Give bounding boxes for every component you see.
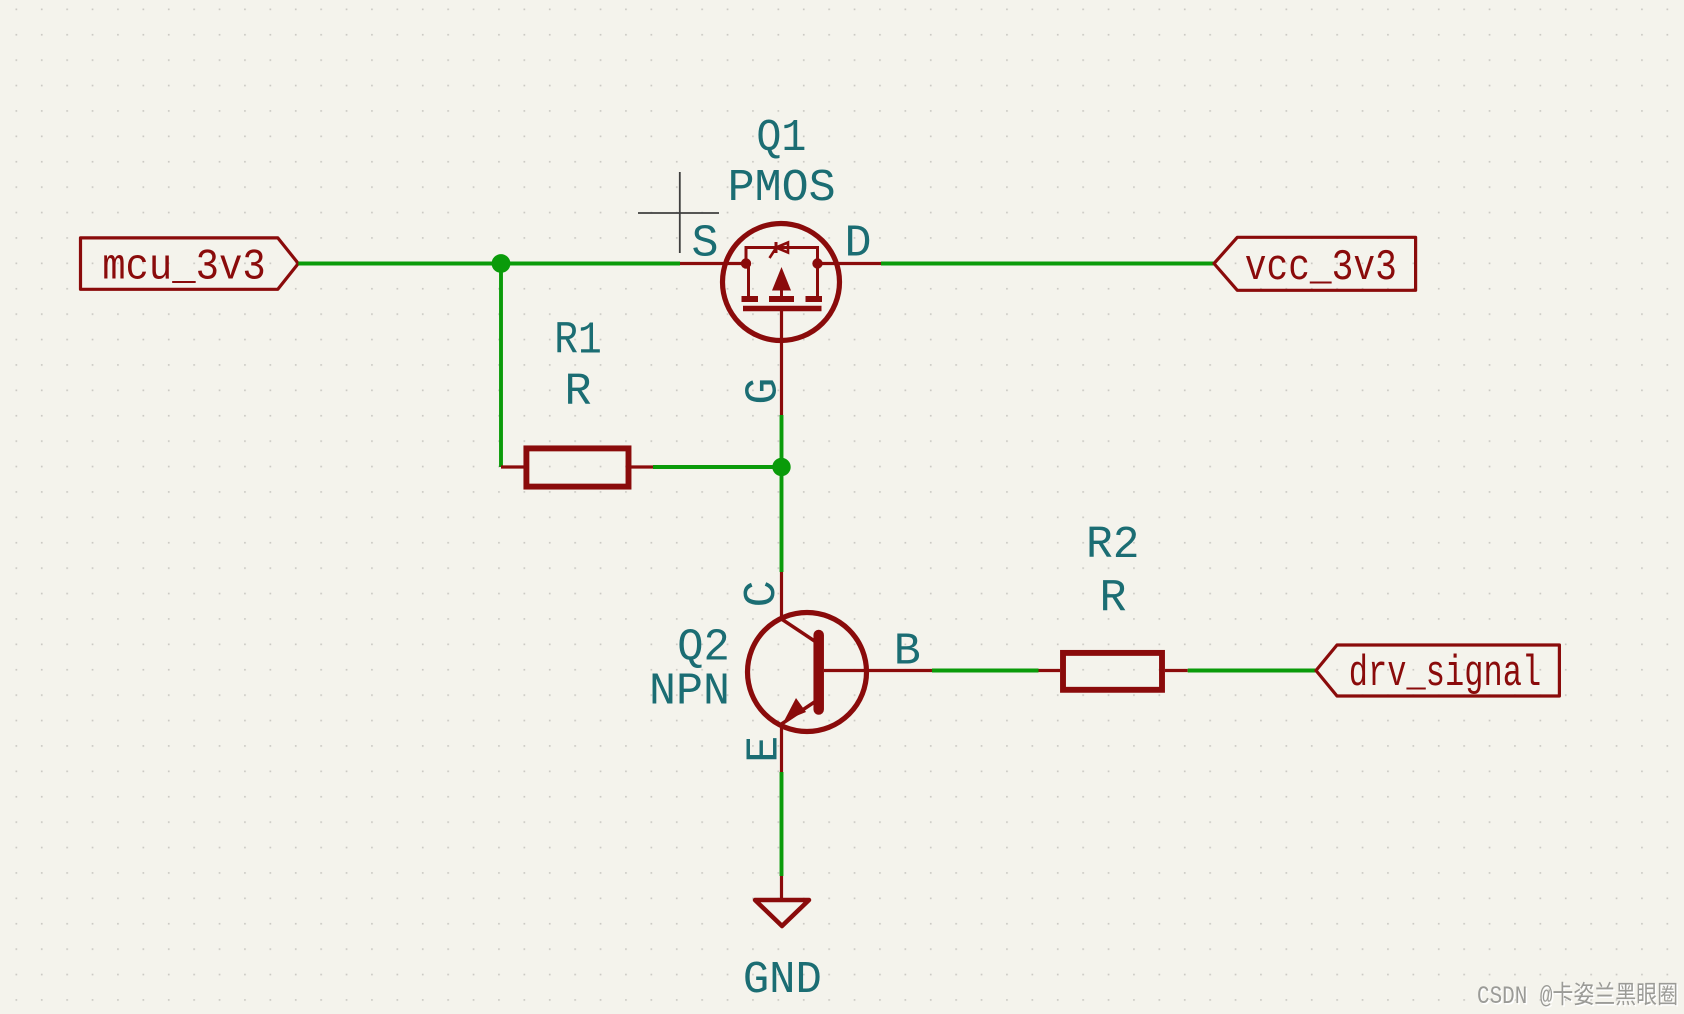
transistor Q1 PMOS (680, 224, 881, 416)
Q1 body diode cathode bar (775, 242, 778, 253)
watermark CSDN (1477, 981, 1680, 1013)
svg-text:D: D (844, 219, 871, 270)
junction node at mcu_3v3 branch (492, 254, 511, 273)
resistor R2 (1039, 653, 1188, 690)
transistor Q2 NPN (748, 572, 933, 772)
wire Q2 base to R2 (932, 669, 1039, 673)
GND pin (780, 876, 783, 900)
wire junction down to R1 (499, 264, 503, 468)
global label drv_signal (1316, 645, 1559, 699)
resistor R1 (501, 448, 653, 486)
Q1 body circle (723, 224, 840, 341)
R1 left pin (501, 465, 524, 468)
Q1 body diode tail (770, 248, 777, 258)
R2 body (1063, 653, 1162, 690)
wire Q2 emitter to GND (780, 772, 784, 876)
svg-text:CSDN @卡姿兰黑眼圈: CSDN @卡姿兰黑眼圈 (1477, 981, 1678, 1011)
R2 right pin (1165, 669, 1188, 672)
Q1 gate bar (743, 306, 822, 312)
R2 left pin (1039, 669, 1061, 672)
Q1 body diode triangle (776, 243, 788, 253)
pin S of Q1 (680, 262, 746, 265)
R1 right pin (630, 465, 653, 468)
svg-text:R: R (564, 367, 591, 418)
global label mcu_3v3 (81, 238, 299, 293)
svg-text:R: R (1099, 574, 1126, 625)
svg-text:E: E (740, 736, 791, 763)
Q2 base bar (813, 635, 824, 710)
pin E of Q2 (780, 724, 783, 772)
cursor crosshair (638, 172, 719, 253)
svg-text:drv_signal: drv_signal (1349, 649, 1541, 699)
Q1 channel dash left (742, 296, 759, 302)
pin G of Q1 (780, 309, 783, 416)
wire junction down to Q2 collector (780, 467, 784, 572)
Q1 source vertical (747, 264, 750, 299)
wire R1 to gate junction (653, 465, 782, 469)
wire gate down from pin G (780, 415, 784, 467)
Q2 emitter diagonal (782, 701, 817, 724)
Q2 emitter arrow (784, 698, 806, 721)
Q2 collector diagonal (782, 619, 817, 642)
R1 body (526, 448, 628, 486)
pin B of Q2 (824, 669, 932, 672)
pin C of Q2 (780, 572, 783, 620)
svg-text:G: G (738, 378, 789, 405)
svg-text:mcu_3v3: mcu_3v3 (102, 243, 266, 293)
svg-text:C: C (737, 580, 788, 607)
Q1 channel dash right (806, 296, 823, 302)
junction node at gate (772, 458, 790, 476)
Q1 source dot (741, 258, 751, 268)
pin D of Q1 (818, 262, 882, 265)
svg-text:S: S (691, 219, 718, 270)
Q2 body circle (748, 613, 867, 732)
svg-text:Q1: Q1 (756, 113, 806, 164)
Q1 channel dash middle (769, 296, 794, 302)
GND triangle (755, 900, 809, 926)
Q1 drain dot (812, 258, 822, 268)
wire mcu_3v3 to Q1 source pin (298, 262, 680, 266)
svg-text:vcc_3v3: vcc_3v3 (1245, 243, 1397, 293)
svg-text:R2: R2 (1086, 520, 1140, 571)
svg-text:B: B (894, 627, 921, 678)
wire R2 to drv_signal (1188, 669, 1316, 673)
svg-text:GND: GND (743, 955, 822, 1006)
svg-text:R1: R1 (554, 316, 602, 367)
svg-text:NPN: NPN (649, 667, 730, 718)
svg-text:PMOS: PMOS (728, 163, 836, 214)
wire Q1 drain to vcc_3v3 (881, 262, 1214, 266)
ground (755, 876, 809, 926)
global label vcc_3v3 (1214, 237, 1416, 293)
Q1 substrate arrow (772, 267, 791, 291)
Q1 drain vertical (816, 264, 819, 299)
Q1 body diode loop (746, 248, 818, 264)
